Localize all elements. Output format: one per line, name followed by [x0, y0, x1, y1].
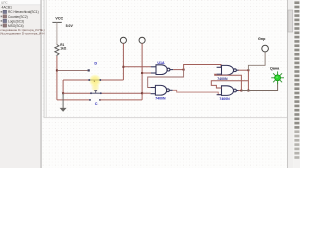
svg-text:7400N: 7400N — [155, 97, 166, 101]
junction at ground rail — [62, 92, 64, 94]
switch J1 upper throw terminal (square dot) — [88, 69, 90, 71]
junction D net — [122, 66, 124, 68]
scrollbar thumb — [288, 10, 293, 32]
ground (DIN arrow) — [62, 93, 64, 108]
sheet border left double line — [43, 0, 46, 118]
svg-text:Исследование D-триггера_И-Н: Исследование D-триггера_И-Н — [0, 32, 44, 36]
svg-text:4ACB1: 4ACB1 — [2, 6, 13, 10]
wire R1 down to C-switch lower row — [56, 56, 58, 100]
junction at Q vertical crossing — [247, 90, 249, 92]
switch J2 pins upper row — [90, 92, 92, 94]
connector circle 2 (C tap) — [139, 37, 145, 43]
connector circle Gnp — [262, 45, 269, 52]
wire Q feedback down to U2B input A — [247, 70, 249, 90]
sheet border bottom line — [44, 116, 287, 119]
svg-text:Counter(SC2): Counter(SC2) — [8, 15, 28, 19]
right toolbar strip — [293, 0, 300, 168]
wire C net to U1B input B — [142, 92, 151, 94]
switch J1 (D) main line — [63, 79, 123, 81]
junction U1A out — [183, 69, 185, 71]
svg-text:ЦПС: ЦПС — [1, 0, 8, 4]
wire U1A output to junction — [173, 69, 183, 71]
wire connector1 down D net — [122, 43, 124, 80]
wire row2 up to C net — [141, 93, 143, 100]
wire corner into row2 — [57, 99, 90, 101]
svg-text:Qана: Qана — [270, 67, 280, 71]
workspace background with grid — [41, 0, 288, 168]
power VCC symbol (T-bar) — [52, 21, 61, 23]
switch J2 lever — [95, 91, 97, 94]
connector circle 1 (D tap) — [120, 37, 126, 43]
junction C net at U1A input B — [141, 72, 143, 74]
NAND gate U1A — [151, 65, 173, 75]
NAND gate U2B — [217, 86, 239, 96]
wire C net to U1A input B — [142, 72, 151, 74]
wire D-switch left to ground rail — [62, 80, 64, 93]
wire D net to U1A input A — [123, 66, 151, 68]
svg-text:C: C — [95, 102, 98, 106]
NAND gate U1B — [151, 85, 173, 95]
right scrollbar track — [286, 0, 289, 168]
switch J2 (C) upper row — [63, 92, 91, 94]
switch J2 lower row (open throw) — [89, 99, 91, 101]
probe X1 (green star) — [271, 71, 284, 84]
junction on R1 net at D-switch throw — [56, 69, 58, 71]
switch J1 pins — [88, 79, 90, 81]
wire U1A out down and left to U1B input A — [148, 70, 184, 88]
svg-text:VCC: VCC — [55, 17, 63, 21]
wire Q up to Gnp connector — [248, 52, 265, 70]
left sidebar (design toolbox) — [0, 0, 45, 168]
svg-text:1kΩ: 1kΩ — [60, 47, 67, 51]
wire connector2 down C net — [141, 43, 143, 93]
wire junction to D-switch upper throw — [57, 69, 88, 71]
resistor R1 — [55, 45, 59, 56]
junction Q — [247, 69, 249, 71]
wire U2B output / junction — [238, 90, 241, 92]
wire Qbar feedback up to U2A input B — [215, 74, 242, 90]
wire U1A out up and right to U2A input A — [184, 65, 221, 70]
svg-text:Logic(SC3): Logic(SC3) — [8, 19, 24, 23]
NAND gate U2A — [217, 65, 239, 75]
svg-text:7400N: 7400N — [219, 97, 230, 101]
svg-text:RC Hierarchical(SC1): RC Hierarchical(SC1) — [8, 10, 39, 14]
svg-text:D: D — [94, 61, 97, 65]
junction C net bottom — [141, 92, 143, 94]
svg-text:Gnp: Gnp — [258, 37, 266, 41]
svg-text:5.0V: 5.0V — [66, 24, 74, 28]
wire to probe (star) — [241, 81, 277, 90]
wire VCC to R1 — [56, 22, 58, 45]
wire U1B output to U2B input B — [173, 90, 222, 94]
glow around D switch key — [89, 74, 102, 87]
wire U2A output to Q junction — [238, 69, 248, 71]
